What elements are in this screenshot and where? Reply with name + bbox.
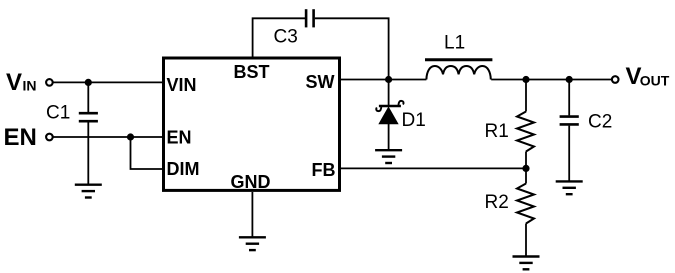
- svg-text:EN: EN: [167, 128, 192, 148]
- svg-text:GND: GND: [231, 172, 271, 192]
- svg-text:C3: C3: [274, 27, 298, 48]
- svg-text:OUT: OUT: [640, 73, 670, 89]
- svg-text:R2: R2: [485, 192, 509, 213]
- svg-text:BST: BST: [234, 62, 270, 82]
- svg-text:V: V: [6, 69, 22, 96]
- svg-text:IN: IN: [23, 78, 37, 94]
- svg-text:DIM: DIM: [167, 159, 200, 179]
- svg-text:C2: C2: [588, 112, 612, 133]
- svg-text:L1: L1: [444, 33, 465, 54]
- svg-text:SW: SW: [306, 72, 335, 92]
- svg-text:R1: R1: [485, 121, 509, 142]
- svg-text:FB: FB: [312, 160, 336, 180]
- svg-text:C1: C1: [46, 103, 70, 124]
- svg-text:D1: D1: [402, 110, 426, 131]
- svg-text:VIN: VIN: [167, 75, 197, 95]
- svg-text:EN: EN: [4, 124, 37, 151]
